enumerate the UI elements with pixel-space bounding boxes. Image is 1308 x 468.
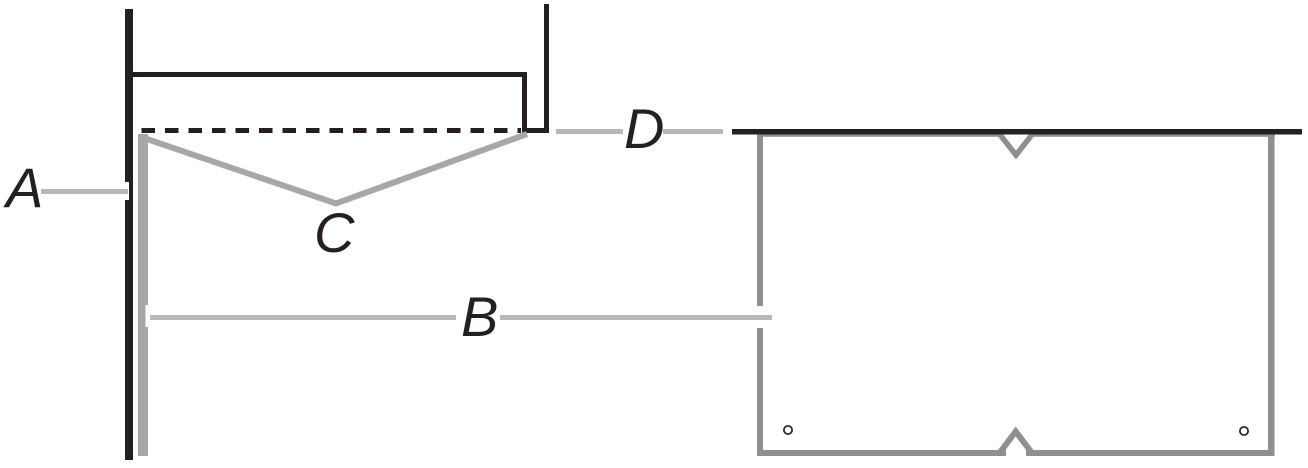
ledger board (gray vertical bar) [138,134,148,456]
wall (black vertical) [125,9,133,460]
deck board top edge (gray, right part) [1032,132,1275,137]
joist black line (top right) [732,129,1302,135]
deck board bottom edge (left part) [757,450,1006,456]
screw circle left [784,426,792,434]
bottom break chevron [1000,432,1033,454]
svg-text:A: A [3,156,43,219]
deck board bottom edge (right part) [1026,450,1275,456]
flashing bottom short horizontal [522,128,549,133]
notch in ledger bar at leader B [146,305,151,327]
leader B left segment [150,315,456,320]
leader A [41,189,128,194]
deck board right edge [1268,132,1275,456]
deck board top edge (gray, left part) [757,132,1000,137]
flashing elbow vertical [522,72,527,133]
svg-text:C: C [314,201,355,264]
dashed ledger top line [142,128,522,133]
deck board left edge (upper part) [757,132,763,306]
leader D right segment [663,129,723,134]
notch in wall at leader A [125,182,129,200]
svg-text:B: B [461,285,498,348]
deck board left edge (lower part) [757,328,763,456]
top break chevron [1000,134,1033,155]
V brace (element C) [141,134,527,204]
leader D left segment [556,129,623,134]
siding (tall black vertical) [544,4,549,133]
flashing top (black horizontal) [133,72,527,77]
svg-text:D: D [624,97,664,160]
screw circle right [1240,427,1248,435]
leader B right segment [500,315,772,320]
